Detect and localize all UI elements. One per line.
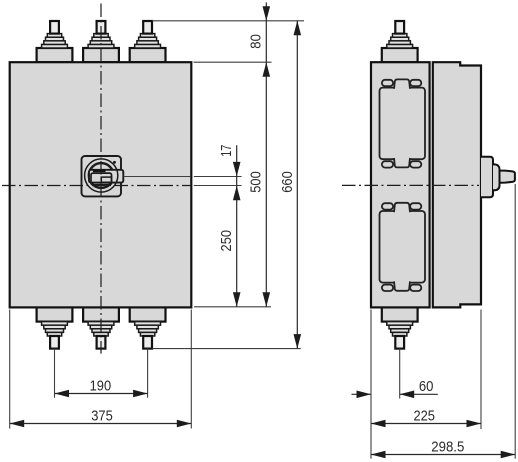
- extension line pin-top level: [152, 20, 304, 22]
- shaft escutcheon block: [481, 157, 493, 197]
- dimension line 298.5: [371, 454, 515, 456]
- handle escutcheon plate: [82, 156, 122, 196]
- side terminal top: [382, 21, 418, 62]
- terminal T1 bottom: [37, 307, 73, 348]
- terminal T2 top: [83, 21, 119, 62]
- dimension line 17-250: [236, 145, 238, 306]
- terminal T3 bottom: [130, 307, 166, 348]
- handle C-ring: [89, 163, 114, 188]
- terminal T1 top: [37, 21, 73, 62]
- dimension line 375: [10, 423, 192, 425]
- dimension 60 right part: [400, 393, 438, 395]
- svg-text:298.5: 298.5: [431, 439, 464, 455]
- handle grip outline: [91, 173, 112, 185]
- center line extension: [194, 185, 242, 187]
- extension line left pin: [54, 349, 56, 398]
- svg-text:80: 80: [249, 34, 265, 49]
- horizontal center line: [2, 185, 191, 187]
- extension line right pin: [147, 349, 149, 398]
- extension line body-top level: [194, 61, 272, 63]
- extension line body-bottom level: [194, 306, 271, 308]
- svg-text:250: 250: [219, 230, 235, 252]
- svg-text:500: 500: [249, 171, 265, 193]
- side terminal bottom: [382, 307, 418, 348]
- extension line side pin: [399, 349, 401, 399]
- lower mounting plate: [380, 203, 426, 291]
- handle inner rect: [101, 177, 111, 182]
- shaft knob: [500, 171, 515, 183]
- svg-text:225: 225: [413, 408, 435, 424]
- svg-text:190: 190: [90, 378, 112, 394]
- handle indicator dot: [113, 161, 116, 164]
- svg-text:17: 17: [219, 145, 235, 157]
- dimension line 225: [371, 423, 481, 425]
- extension line knob tip: [514, 184, 516, 459]
- side body left section: [371, 62, 430, 307]
- handle outer circle: [85, 159, 118, 192]
- extension line body-right: [190, 310, 192, 429]
- handle bar: [89, 170, 123, 183]
- svg-text:660: 660: [280, 171, 296, 193]
- handle axis extension: [194, 176, 242, 178]
- handle axis line: [124, 176, 191, 178]
- extension line body-left: [9, 310, 11, 429]
- dimension line 80-500: [265, 2, 267, 306]
- svg-text:375: 375: [91, 408, 113, 424]
- vertical center line: [100, 4, 102, 354]
- extension line 660 bottom: [153, 348, 301, 350]
- dimension line 190: [55, 393, 148, 395]
- side body right section: [433, 62, 481, 307]
- dimension 60 left part: [352, 393, 372, 395]
- upper mounting plate: [380, 79, 426, 167]
- handle top tick: [93, 170, 106, 172]
- side horizontal center line: [342, 184, 479, 186]
- terminal T3 top: [130, 21, 166, 62]
- shaft mid section: [493, 164, 500, 190]
- front body: [10, 62, 192, 307]
- svg-text:60: 60: [419, 379, 434, 395]
- dimension line 660: [296, 21, 298, 349]
- extension line side body-right: [480, 310, 482, 430]
- terminal T2 bottom: [83, 307, 119, 348]
- extension line side body-left: [370, 310, 372, 459]
